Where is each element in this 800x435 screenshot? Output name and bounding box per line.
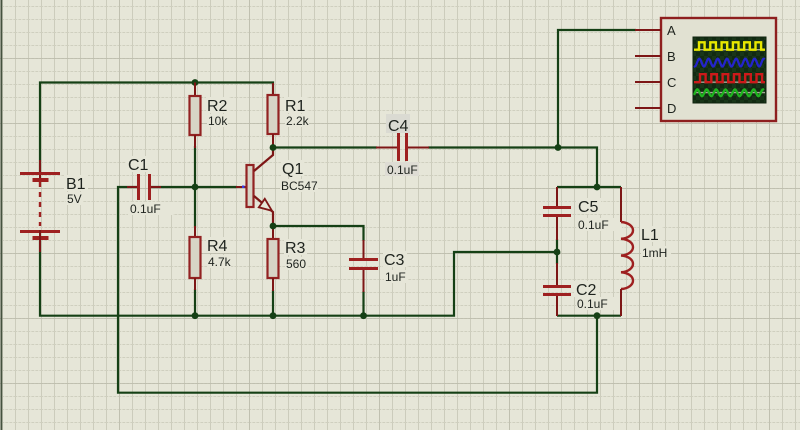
pin D stub bbox=[635, 107, 661, 109]
wire: tank bottom rail bbox=[557, 315, 621, 317]
trace D green sine bbox=[694, 89, 764, 96]
svg-text:L1: L1 bbox=[641, 227, 659, 244]
svg-text:R4: R4 bbox=[207, 238, 228, 255]
transistor Q1 bbox=[236, 148, 318, 226]
trace B blue sine bbox=[694, 59, 765, 67]
node: C3 ground junction bbox=[360, 312, 367, 319]
trace C red square bbox=[694, 74, 765, 82]
wire: tank top rail bbox=[557, 186, 621, 188]
svg-text:1uF: 1uF bbox=[385, 270, 406, 284]
pin C stub bbox=[635, 81, 661, 83]
node: tank mid junction bbox=[554, 249, 561, 256]
node: emitter junction bbox=[270, 223, 277, 230]
node: scope branch junction bbox=[555, 144, 562, 151]
svg-text:C1: C1 bbox=[128, 157, 149, 174]
pin A stub bbox=[635, 29, 661, 31]
svg-text:C3: C3 bbox=[384, 252, 405, 269]
node: R2 top junction bbox=[192, 79, 199, 86]
oscilloscope U1 bbox=[635, 18, 776, 121]
svg-text:2.2k: 2.2k bbox=[286, 114, 310, 128]
svg-text:5V: 5V bbox=[67, 192, 82, 206]
capacitor C2 bbox=[543, 263, 621, 316]
wire: collector rail from R1 bottom to C4 bbox=[273, 146, 377, 148]
node: R4 ground junction bbox=[192, 312, 199, 319]
battery B1 bbox=[20, 160, 88, 252]
resistor R1 bbox=[268, 83, 310, 146]
svg-text:BC547: BC547 bbox=[281, 179, 318, 193]
node: tank top junction bbox=[594, 184, 601, 191]
trace zero lines bbox=[694, 49, 765, 51]
svg-text:C5: C5 bbox=[578, 199, 599, 216]
svg-text:B1: B1 bbox=[66, 176, 86, 193]
wire: base line C1 right to Q1 base bbox=[151, 186, 237, 188]
wire: R2 bottom to base node to R4 top bbox=[194, 146, 196, 227]
resistor R3 bbox=[268, 227, 308, 291]
svg-text:0.1uF: 0.1uF bbox=[578, 218, 609, 232]
svg-text:Q1: Q1 bbox=[282, 161, 303, 178]
wire: R2 top pin drop bbox=[194, 83, 196, 97]
svg-text:A: A bbox=[667, 23, 676, 38]
svg-text:0.1uF: 0.1uF bbox=[387, 163, 418, 177]
node: collector junction bbox=[270, 144, 277, 151]
wire: tank mid green segments bbox=[556, 239, 558, 264]
inductor L1 bbox=[621, 187, 671, 316]
wire: battery bottom to ground rail bbox=[40, 240, 558, 316]
sheet border left bbox=[1, 0, 3, 430]
wire: C1 left corner bbox=[118, 187, 597, 393]
wire: C4 right to tank top corner bbox=[428, 148, 597, 188]
svg-text:0.1uF: 0.1uF bbox=[130, 202, 161, 216]
trace A yellow square bbox=[694, 42, 765, 49]
node: tank bottom junction bbox=[594, 312, 601, 319]
pin B stub bbox=[635, 55, 661, 57]
svg-text:1mH: 1mH bbox=[642, 246, 667, 260]
node: R3 ground junction bbox=[270, 312, 277, 319]
wire: R3 bottom to rail bbox=[272, 290, 274, 316]
svg-text:R2: R2 bbox=[207, 98, 228, 115]
svg-text:D: D bbox=[667, 101, 676, 116]
capacitor C4 bbox=[376, 114, 429, 177]
svg-text:560: 560 bbox=[286, 257, 306, 271]
wire: C3 bottom to rail bbox=[362, 291, 364, 316]
svg-text:C: C bbox=[667, 75, 676, 90]
resistor R2 bbox=[190, 84, 230, 148]
wire: emitter line to C3 corner bbox=[273, 226, 364, 241]
wire: R4 bottom to ground rail bbox=[194, 289, 196, 316]
wire: top rail from battery to R1 bbox=[40, 83, 273, 173]
svg-text:4.7k: 4.7k bbox=[208, 255, 232, 269]
wire: scope branch up bbox=[558, 30, 636, 148]
capacitor C1 bbox=[126, 156, 173, 216]
node: base junction bbox=[192, 184, 199, 191]
svg-text:B: B bbox=[667, 49, 676, 64]
svg-text:R3: R3 bbox=[285, 240, 306, 257]
capacitor C5 bbox=[543, 187, 622, 240]
capacitor C3 bbox=[349, 240, 408, 292]
svg-text:C4: C4 bbox=[388, 118, 409, 135]
svg-text:10k: 10k bbox=[208, 114, 228, 128]
resistor R4 bbox=[190, 226, 232, 290]
svg-text:R1: R1 bbox=[285, 98, 306, 115]
svg-text:0.1uF: 0.1uF bbox=[577, 297, 608, 311]
